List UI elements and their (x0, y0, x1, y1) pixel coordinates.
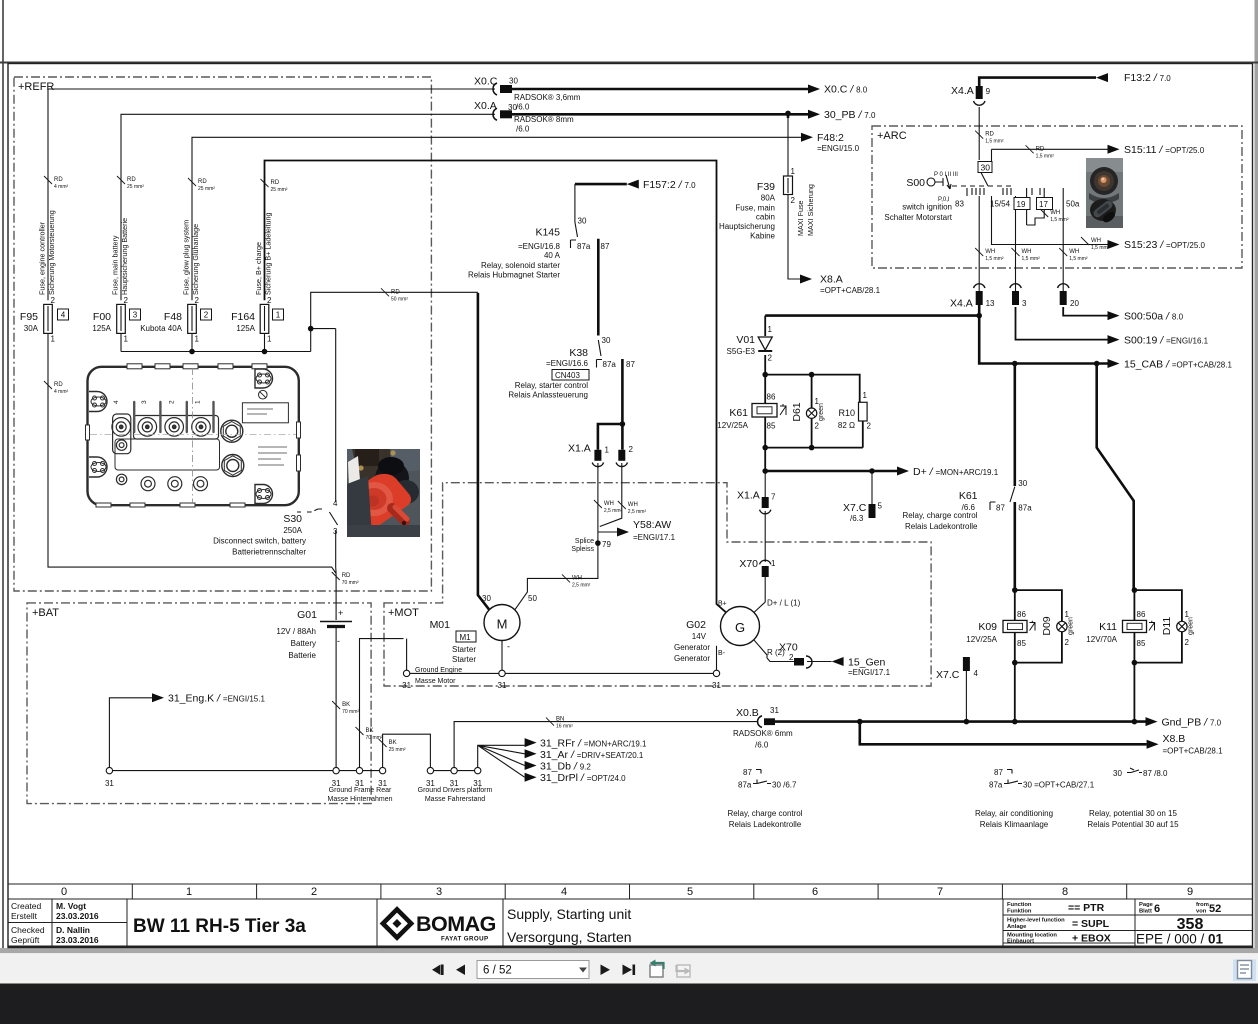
svg-text:30: 30 (482, 594, 491, 603)
svg-text:S00:50a / 8.0: S00:50a / 8.0 (1124, 311, 1184, 323)
svg-text:=OPT+CAB/28.1: =OPT+CAB/28.1 (1163, 747, 1224, 756)
svg-text:X0.C / 8.0: X0.C / 8.0 (824, 84, 868, 96)
svg-text:87: 87 (601, 242, 610, 251)
svg-text:2: 2 (168, 400, 175, 404)
svg-text:X8.B: X8.B (1163, 733, 1186, 745)
svg-text:+MOT: +MOT (388, 607, 419, 619)
svg-text:87 /8.0: 87 /8.0 (1143, 769, 1168, 778)
svg-text:Batterie: Batterie (288, 651, 316, 660)
svg-text:2: 2 (768, 354, 773, 363)
svg-text:Relay, solenoid starter: Relay, solenoid starter (481, 261, 560, 270)
svg-text:X0.A: X0.A (474, 100, 497, 112)
svg-text:19: 19 (1017, 200, 1026, 209)
svg-text:green: green (1188, 617, 1195, 635)
svg-text:Fuse, main: Fuse, main (735, 204, 775, 213)
svg-text:Hauptsicherung: Hauptsicherung (719, 222, 775, 231)
svg-text:3: 3 (133, 311, 138, 320)
svg-text:Relais Ladekontrolle: Relais Ladekontrolle (905, 522, 978, 531)
svg-text:green: green (818, 403, 825, 421)
svg-text:Relay, potential 30 on 15: Relay, potential 30 on 15 (1089, 809, 1177, 818)
svg-text:X4.A: X4.A (951, 85, 974, 97)
svg-text:85: 85 (1017, 639, 1026, 648)
svg-text:Battery: Battery (291, 639, 316, 648)
svg-text:Relay, starter control: Relay, starter control (515, 381, 588, 390)
svg-text:25 mm²: 25 mm² (198, 186, 215, 192)
svg-text:-: - (337, 636, 340, 646)
svg-text:Kabine: Kabine (750, 232, 775, 241)
svg-text:WH: WH (1091, 238, 1101, 244)
svg-text:X7.C: X7.C (936, 669, 960, 681)
svg-text:25 mm²: 25 mm² (127, 184, 144, 190)
svg-text:30: 30 (578, 217, 587, 226)
svg-text:M1: M1 (460, 633, 472, 642)
svg-text:87: 87 (626, 360, 635, 369)
svg-text:2: 2 (124, 296, 129, 305)
svg-text:15_Gen: 15_Gen (848, 657, 886, 669)
svg-text:Fuse, glow plug system: Fuse, glow plug system (182, 220, 191, 295)
svg-text:CN403: CN403 (555, 371, 580, 380)
svg-text:86: 86 (767, 393, 776, 402)
svg-text:RD: RD (198, 179, 207, 185)
svg-text:S00: S00 (906, 177, 925, 189)
svg-text:Generator: Generator (674, 654, 710, 663)
svg-text:87a: 87a (603, 360, 617, 369)
svg-text:1: 1 (768, 325, 773, 334)
svg-text:/6.0: /6.0 (516, 103, 530, 112)
svg-text:X1.A: X1.A (737, 490, 760, 502)
svg-text:B+: B+ (718, 601, 727, 608)
svg-text:87a: 87a (577, 242, 591, 251)
svg-text:V01: V01 (736, 334, 755, 346)
svg-text:Starter: Starter (452, 655, 476, 664)
svg-text:M: M (497, 617, 508, 632)
svg-text:WH: WH (1050, 210, 1060, 216)
svg-text:RD: RD (985, 132, 994, 138)
svg-text:Sicherung Glühanlage: Sicherung Glühanlage (191, 224, 200, 295)
svg-text:87: 87 (996, 504, 1005, 513)
svg-text:17: 17 (1039, 200, 1048, 209)
svg-text:P,0,I: P,0,I (938, 197, 950, 203)
svg-text:F13:2 / 7.0: F13:2 / 7.0 (1124, 72, 1171, 84)
svg-text:85: 85 (767, 422, 776, 431)
svg-text:from: from (1196, 902, 1209, 908)
svg-text:50a: 50a (1066, 200, 1080, 209)
svg-text:R (2): R (2) (767, 648, 785, 657)
svg-text:5: 5 (687, 886, 693, 898)
svg-text:Geprüft: Geprüft (11, 935, 40, 945)
svg-text:=OPT+CAB/28.1: =OPT+CAB/28.1 (820, 286, 881, 295)
svg-text:31_Eng.K / =ENGI/15.1: 31_Eng.K / =ENGI/15.1 (168, 693, 265, 705)
svg-text:RD: RD (54, 177, 63, 183)
svg-text:K11: K11 (1099, 621, 1117, 633)
svg-text:358: 358 (1177, 916, 1204, 933)
svg-text:6: 6 (1154, 903, 1160, 915)
svg-text:Relais Anlassteuerung: Relais Anlassteuerung (508, 391, 588, 400)
svg-text:52: 52 (1209, 903, 1221, 915)
svg-text:Ground Drivers platform: Ground Drivers platform (418, 787, 493, 794)
svg-text:79: 79 (602, 540, 611, 549)
svg-text:+BAT: +BAT (32, 607, 59, 619)
svg-text:23.03.2016: 23.03.2016 (56, 935, 99, 945)
svg-text:Funktion: Funktion (1007, 909, 1032, 915)
svg-text:D61: D61 (791, 402, 803, 421)
svg-text:12V/25A: 12V/25A (966, 635, 997, 644)
svg-text:Page: Page (1139, 902, 1154, 908)
svg-text:30: 30 (1113, 769, 1122, 778)
svg-text:250A: 250A (283, 526, 302, 535)
svg-text:B-: B- (718, 650, 726, 657)
svg-text:9: 9 (986, 87, 991, 96)
svg-text:-: - (507, 642, 510, 652)
svg-text:S15:11 / =OPT/25.0: S15:11 / =OPT/25.0 (1124, 144, 1205, 156)
svg-text:30 =OPT+CAB/27.1: 30 =OPT+CAB/27.1 (1023, 781, 1095, 790)
svg-text:F95: F95 (20, 311, 38, 323)
svg-text:Fuse, engine controller: Fuse, engine controller (38, 221, 47, 295)
svg-text:80A: 80A (761, 194, 776, 203)
svg-text:2: 2 (1185, 638, 1190, 647)
svg-text:Hauptsicherung Batterie: Hauptsicherung Batterie (120, 218, 129, 295)
svg-text:3: 3 (141, 400, 148, 404)
svg-text:WH: WH (628, 502, 638, 508)
svg-text:125A: 125A (92, 324, 111, 333)
svg-text:F48:2: F48:2 (817, 132, 844, 144)
svg-text:1,5 mm²: 1,5 mm² (1091, 245, 1110, 251)
svg-text:13: 13 (986, 299, 995, 308)
svg-text:87: 87 (994, 768, 1003, 777)
svg-text:87a: 87a (989, 781, 1003, 790)
svg-text:Relay, charge control: Relay, charge control (903, 511, 978, 520)
svg-text:S15:23 / =OPT/25.0: S15:23 / =OPT/25.0 (1124, 239, 1206, 251)
svg-text:RADSOK® 3,6mm: RADSOK® 3,6mm (514, 93, 581, 102)
svg-text:MAXI Fuse: MAXI Fuse (796, 200, 805, 236)
svg-text:= SUPL: = SUPL (1072, 918, 1110, 930)
svg-text:X70: X70 (739, 558, 758, 570)
svg-text:2,5 mm²: 2,5 mm² (604, 508, 623, 514)
svg-text:Gnd_PB / 7.0: Gnd_PB / 7.0 (1162, 717, 1222, 729)
svg-text:30A: 30A (24, 324, 39, 333)
svg-text:86: 86 (1017, 610, 1026, 619)
svg-text:7: 7 (937, 886, 943, 898)
svg-text:Versorgung, Starten: Versorgung, Starten (507, 929, 632, 945)
svg-text:12V / 88Ah: 12V / 88Ah (276, 627, 316, 636)
svg-text:85: 85 (1137, 639, 1146, 648)
svg-text:3: 3 (436, 886, 442, 898)
svg-text:1: 1 (195, 400, 202, 404)
svg-text:31_DrPl / =OPT/24.0: 31_DrPl / =OPT/24.0 (540, 772, 626, 784)
svg-text:1: 1 (863, 391, 868, 400)
svg-text:=ENGI/16.6: =ENGI/16.6 (546, 359, 589, 368)
svg-text:RD: RD (54, 382, 63, 388)
svg-text:Einbauort: Einbauort (1007, 939, 1034, 945)
svg-text:K145: K145 (535, 227, 560, 239)
svg-text:Ground Engine: Ground Engine (415, 667, 462, 674)
svg-text:RD: RD (127, 177, 136, 183)
svg-text:40 A: 40 A (544, 251, 561, 260)
svg-text:Disconnect switch, battery: Disconnect switch, battery (213, 537, 306, 546)
svg-text:30: 30 (509, 77, 518, 86)
svg-text:Masse Hinterrahmen: Masse Hinterrahmen (328, 796, 393, 803)
svg-text:70 mm²: 70 mm² (366, 735, 383, 741)
svg-text:=ENGI/15.0: =ENGI/15.0 (817, 144, 860, 153)
svg-text:5: 5 (878, 502, 883, 511)
svg-text:12V/25A: 12V/25A (717, 421, 748, 430)
svg-text:1,5 mm²: 1,5 mm² (985, 256, 1004, 262)
svg-text:Relay, charge control: Relay, charge control (728, 809, 803, 818)
svg-text:X1.A: X1.A (568, 443, 591, 455)
svg-text:31: 31 (712, 681, 721, 690)
svg-text:Higher-level function: Higher-level function (1007, 918, 1065, 924)
svg-text:83: 83 (955, 200, 964, 209)
svg-text:Sicherung B+ Ladeleitung: Sicherung B+ Ladeleitung (264, 212, 273, 295)
svg-text:82 Ω: 82 Ω (838, 421, 855, 430)
svg-text:RD: RD (1036, 146, 1045, 152)
svg-text:31: 31 (402, 681, 411, 690)
svg-text:2: 2 (629, 445, 634, 454)
svg-text:FAYAT GROUP: FAYAT GROUP (441, 936, 489, 943)
svg-text:2: 2 (1065, 638, 1070, 647)
svg-text:7: 7 (771, 493, 776, 502)
svg-text:=ENGI/16.8: =ENGI/16.8 (518, 242, 561, 251)
svg-text:2: 2 (789, 653, 794, 662)
svg-text:87a: 87a (738, 781, 752, 790)
svg-text:1: 1 (771, 559, 776, 568)
svg-text:Erstellt: Erstellt (11, 911, 38, 921)
svg-text:K61: K61 (959, 490, 978, 502)
svg-text:=ENGI/17.1: =ENGI/17.1 (848, 668, 891, 677)
svg-text:RADSOK® 8mm: RADSOK® 8mm (514, 115, 574, 124)
svg-text:Masse Motor: Masse Motor (415, 678, 456, 685)
svg-text:BOMAG: BOMAG (416, 912, 496, 936)
svg-text:WH: WH (572, 575, 582, 581)
svg-text:6 / 52: 6 / 52 (483, 965, 512, 977)
svg-text:1: 1 (276, 311, 281, 320)
svg-text:23.03.2016: 23.03.2016 (56, 911, 99, 921)
svg-text:4: 4 (113, 400, 120, 404)
svg-text:Anlage: Anlage (1007, 924, 1027, 930)
svg-text:2: 2 (791, 196, 796, 205)
svg-text:Relais Klimaanlage: Relais Klimaanlage (980, 820, 1049, 829)
svg-text:F39: F39 (757, 181, 775, 193)
svg-text:4 mm²: 4 mm² (54, 184, 69, 190)
svg-text:15_CAB / =OPT+CAB/28.1: 15_CAB / =OPT+CAB/28.1 (1124, 359, 1232, 371)
svg-text:Blatt: Blatt (1139, 909, 1152, 915)
svg-text:X0.B: X0.B (736, 707, 759, 719)
svg-text:15/54: 15/54 (990, 200, 1011, 209)
svg-text:Batterietrennschalter: Batterietrennschalter (232, 548, 306, 557)
svg-text:50: 50 (528, 594, 537, 603)
svg-text:BN: BN (556, 717, 564, 723)
svg-text:R10: R10 (838, 408, 855, 418)
svg-text:1: 1 (195, 335, 200, 344)
svg-text:14V: 14V (692, 632, 707, 641)
svg-text:3: 3 (333, 527, 338, 536)
svg-text:1: 1 (51, 335, 56, 344)
svg-text:D+ / L (1): D+ / L (1) (767, 599, 801, 608)
svg-text:MAXI Sicherung: MAXI Sicherung (806, 184, 815, 236)
svg-text:30 /6.7: 30 /6.7 (772, 781, 797, 790)
svg-text:F48: F48 (164, 311, 182, 323)
svg-text:BW 11 RH-5 Tier 3a: BW 11 RH-5 Tier 3a (133, 916, 306, 937)
svg-text:D09: D09 (1041, 616, 1053, 635)
svg-text:3: 3 (1022, 299, 1027, 308)
svg-text:87a: 87a (1018, 504, 1032, 513)
svg-text:25 mm²: 25 mm² (389, 747, 406, 753)
svg-text:RADSOK® 6mm: RADSOK® 6mm (733, 729, 793, 738)
svg-text:Relay, air conditioning: Relay, air conditioning (975, 809, 1053, 818)
svg-text:WH: WH (1069, 249, 1079, 255)
svg-text:4: 4 (561, 886, 567, 898)
svg-text:1: 1 (791, 167, 796, 176)
svg-text:Function: Function (1007, 902, 1032, 908)
svg-text:0: 0 (61, 886, 67, 898)
svg-text:P 0 I II III: P 0 I II III (934, 172, 958, 178)
svg-text:== PTR: == PTR (1068, 902, 1105, 914)
svg-text:G: G (735, 620, 745, 635)
svg-text:31_Db / 9.2: 31_Db / 9.2 (540, 761, 591, 773)
svg-text:switch ignition: switch ignition (902, 203, 952, 212)
svg-text:BK: BK (366, 728, 374, 734)
svg-text:31_RFr / =MON+ARC/19.1: 31_RFr / =MON+ARC/19.1 (540, 738, 647, 750)
svg-text:Sicherung Motorsteuerung: Sicherung Motorsteuerung (47, 210, 56, 295)
svg-text:2: 2 (867, 422, 872, 431)
svg-text:1: 1 (124, 335, 129, 344)
svg-text:2: 2 (267, 296, 272, 305)
svg-text:S30: S30 (283, 513, 302, 525)
svg-text:31: 31 (498, 681, 507, 690)
svg-text:X4.A: X4.A (950, 298, 973, 310)
svg-text:Supply, Starting unit: Supply, Starting unit (507, 906, 631, 922)
svg-text:4 mm²: 4 mm² (54, 389, 69, 395)
svg-text:WH: WH (1022, 249, 1032, 255)
svg-text:1,5 mm²: 1,5 mm² (1050, 217, 1069, 223)
svg-text:RD: RD (342, 573, 351, 579)
svg-text:X8.A: X8.A (820, 274, 843, 286)
svg-text:=ENGI/17.1: =ENGI/17.1 (633, 533, 676, 542)
svg-text:RD: RD (271, 180, 280, 186)
svg-text:+ EBOX: + EBOX (1072, 933, 1111, 945)
svg-text:Masse Fahrerstand: Masse Fahrerstand (425, 796, 485, 803)
svg-text:D. Nallin: D. Nallin (56, 925, 90, 935)
svg-text:D11: D11 (1161, 617, 1173, 636)
svg-text:Schalter Motorstart: Schalter Motorstart (884, 213, 952, 222)
svg-text:2: 2 (195, 296, 200, 305)
svg-text:WH: WH (985, 249, 995, 255)
svg-text:K09: K09 (978, 621, 997, 633)
svg-text:1: 1 (186, 886, 192, 898)
svg-text:EPE / 000 / 01: EPE / 000 / 01 (1136, 932, 1224, 947)
svg-text:2: 2 (51, 296, 56, 305)
svg-text:Splice: Splice (575, 538, 594, 545)
svg-text:S5G-E3: S5G-E3 (727, 347, 756, 356)
svg-text:K61: K61 (729, 407, 748, 419)
svg-text:M01: M01 (430, 619, 451, 631)
svg-text:Generator: Generator (674, 643, 710, 652)
svg-text:/6.0: /6.0 (755, 741, 769, 750)
svg-text:BK: BK (389, 740, 397, 746)
svg-text:1,5 mm²: 1,5 mm² (1069, 256, 1088, 262)
svg-text:Fuse, main battery: Fuse, main battery (111, 235, 120, 295)
svg-text:Fuse, B+ charge: Fuse, B+ charge (254, 242, 263, 295)
svg-text:Ground Frame Rear: Ground Frame Rear (329, 787, 392, 794)
svg-text:1: 1 (605, 446, 610, 455)
svg-text:125A: 125A (236, 324, 255, 333)
svg-text:S00:19 / =ENGI/16.1: S00:19 / =ENGI/16.1 (1124, 335, 1209, 347)
svg-text:30: 30 (1018, 479, 1027, 488)
svg-text:cabin: cabin (756, 213, 775, 222)
svg-text:9: 9 (1187, 886, 1193, 898)
svg-text:2,5 mm²: 2,5 mm² (572, 582, 591, 588)
svg-text:green: green (1068, 617, 1075, 635)
svg-text:/6.3: /6.3 (850, 514, 864, 523)
svg-text:1,5 mm²: 1,5 mm² (1022, 256, 1041, 262)
svg-text:25 mm²: 25 mm² (271, 187, 288, 193)
svg-text:RD: RD (391, 289, 400, 295)
svg-text:Relais Ladekontrolle: Relais Ladekontrolle (729, 820, 802, 829)
svg-text:von: von (1196, 909, 1207, 915)
svg-text:G02: G02 (686, 619, 706, 631)
svg-text:F157:2 / 7.0: F157:2 / 7.0 (643, 179, 696, 191)
svg-text:X7.C: X7.C (843, 502, 867, 514)
svg-text:2: 2 (204, 311, 209, 320)
svg-text:31: 31 (105, 779, 114, 788)
svg-text:30_PB / 7.0: 30_PB / 7.0 (824, 109, 876, 121)
svg-text:12V/70A: 12V/70A (1086, 635, 1117, 644)
svg-text:+ARC: +ARC (877, 130, 907, 142)
svg-text:86: 86 (1137, 610, 1146, 619)
svg-text:70 mm²: 70 mm² (342, 709, 359, 715)
svg-text:BK: BK (342, 702, 350, 708)
svg-text:Starter: Starter (452, 645, 476, 654)
svg-text:31_Ar / =DRIV+SEAT/20.1: 31_Ar / =DRIV+SEAT/20.1 (540, 749, 644, 761)
svg-text:D+ / =MON+ARC/19.1: D+ / =MON+ARC/19.1 (913, 466, 999, 478)
svg-text:F00: F00 (93, 311, 111, 323)
svg-text:20: 20 (1070, 299, 1079, 308)
svg-text:Relais Hubmagnet Starter: Relais Hubmagnet Starter (468, 271, 560, 280)
svg-text:8: 8 (1062, 886, 1068, 898)
svg-text:30: 30 (602, 336, 611, 345)
svg-text:Spleiss: Spleiss (571, 546, 594, 553)
svg-text:+REFR: +REFR (18, 81, 54, 93)
svg-text:Relais Potential 30 auf 15: Relais Potential 30 auf 15 (1087, 820, 1179, 829)
svg-text:87: 87 (743, 768, 752, 777)
svg-text:X0.C: X0.C (474, 76, 498, 88)
svg-text:F164: F164 (231, 311, 255, 323)
svg-text:/6.0: /6.0 (516, 125, 530, 134)
svg-text:2: 2 (311, 886, 317, 898)
svg-text:1: 1 (267, 335, 272, 344)
svg-text:30: 30 (981, 163, 991, 173)
svg-text:Y58:AW: Y58:AW (633, 519, 671, 531)
svg-text:Checked: Checked (11, 925, 45, 935)
svg-text:1,5 mm²: 1,5 mm² (985, 139, 1004, 145)
svg-text:G01: G01 (297, 609, 317, 621)
svg-text:4: 4 (333, 499, 338, 508)
svg-text:16 mm²: 16 mm² (556, 724, 573, 730)
svg-text:K38: K38 (569, 347, 588, 359)
svg-text:2: 2 (815, 422, 820, 431)
svg-text:70 mm²: 70 mm² (342, 580, 359, 586)
svg-text:WH: WH (604, 501, 614, 507)
svg-text:1,5 mm²: 1,5 mm² (1036, 153, 1055, 159)
svg-text:2,5 mm²: 2,5 mm² (628, 509, 647, 515)
svg-text:6: 6 (812, 886, 818, 898)
svg-text:M. Vogt: M. Vogt (56, 901, 86, 911)
svg-text:4: 4 (61, 311, 66, 320)
svg-text:Created: Created (11, 901, 42, 911)
svg-text:+: + (338, 608, 343, 618)
svg-text:50 mm²: 50 mm² (391, 296, 408, 302)
svg-text:31: 31 (770, 706, 779, 715)
